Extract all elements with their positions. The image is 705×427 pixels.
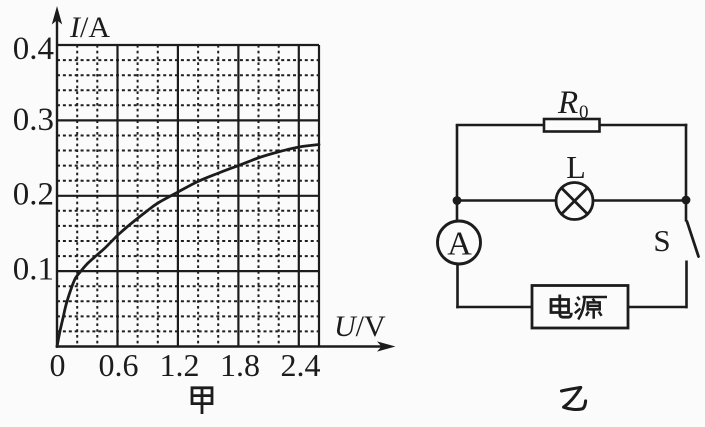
wire top horizontal right of R0	[598, 124, 687, 127]
svg-text:0.6: 0.6	[99, 347, 139, 383]
svg-text:0: 0	[579, 102, 589, 123]
svg-text:2.4: 2.4	[281, 347, 321, 383]
y-axis	[52, 6, 62, 348]
svg-text:S: S	[653, 223, 670, 258]
svg-text:1.8: 1.8	[220, 347, 260, 383]
curve I-U characteristic	[57, 145, 319, 347]
svg-text:U/V: U/V	[334, 310, 386, 343]
wire left vertical to ammeter	[456, 201, 459, 223]
switch lower contact wire	[685, 261, 688, 309]
svg-text:R: R	[557, 85, 578, 121]
wire middle left (node to lamp)	[457, 199, 557, 202]
svg-text:0.4: 0.4	[13, 31, 54, 67]
x-axis	[56, 341, 396, 351]
glyph 电	[551, 295, 571, 318]
svg-text:0: 0	[50, 347, 66, 383]
grid minor dotted lines	[57, 45, 319, 347]
ammeter A symbol	[438, 221, 481, 264]
wire bottom right (battery to switch branch)	[628, 306, 687, 309]
node left junction dot	[453, 196, 462, 205]
svg-text:0.3: 0.3	[13, 102, 54, 138]
svg-text:L: L	[566, 149, 586, 185]
wire right node to switch top contact	[685, 200, 688, 222]
wire middle right (lamp to node)	[593, 199, 687, 202]
wire top horizontal left of R0	[456, 124, 545, 127]
caption 乙 (drawn glyph)	[562, 387, 586, 409]
wire top-left vertical (node to top)	[456, 125, 459, 201]
glyph 源	[575, 297, 607, 320]
wire bottom left (to battery)	[456, 306, 532, 309]
svg-text:I/A: I/A	[69, 11, 110, 44]
svg-text:0.2: 0.2	[13, 177, 54, 213]
wire right vertical (top to node)	[685, 124, 688, 200]
svg-text:1.2: 1.2	[160, 347, 200, 383]
lamp L symbol	[556, 183, 593, 220]
svg-text:0.1: 0.1	[13, 252, 54, 288]
switch S blade (open)	[687, 222, 699, 257]
node right junction dot	[682, 196, 691, 205]
grid major solid lines	[57, 45, 319, 347]
battery box 电源	[532, 286, 628, 329]
wire below ammeter	[456, 264, 459, 308]
resistor R0 body	[544, 119, 600, 132]
caption 甲 (drawn glyph)	[192, 388, 212, 414]
svg-text:A: A	[447, 226, 472, 263]
